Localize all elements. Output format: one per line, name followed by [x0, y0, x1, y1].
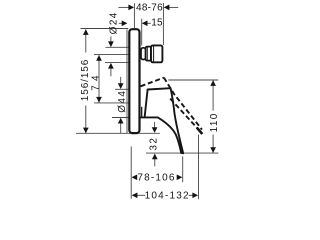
dim 32 top tail [154, 122, 156, 128]
knob ring [146, 47, 151, 61]
plate bottom extension line [76, 132, 160, 134]
handle axis reference line [94, 102, 129, 104]
svg-text:78-106: 78-106 [137, 173, 175, 184]
dim 15 extension line [141, 19, 143, 46]
svg-text:Ø44: Ø44 [117, 90, 128, 113]
bottom left extension line [130, 147, 132, 199]
knob cap [151, 45, 162, 62]
dim 110 line upper [212, 80, 214, 110]
dim 110 top arrowhead [210, 80, 216, 86]
handle top reference line [115, 88, 129, 90]
dim 156/156 line upper [85, 29, 87, 52]
dim 156/156 bottom arrowhead [83, 128, 89, 134]
pipe bottom line [105, 62, 129, 64]
lever rear bottom stub [141, 107, 143, 117]
knob ring inner line [146, 47, 148, 60]
escutcheon plate [129, 29, 139, 133]
raised handle dashed tip [197, 128, 202, 134]
dim D44 bottom arrowhead [118, 118, 124, 124]
svg-text:48-76: 48-76 [136, 3, 163, 14]
svg-text:Ø24: Ø24 [108, 11, 119, 34]
dim 104-132 right arrowhead [192, 192, 198, 198]
dim 104-132 left arrowhead [132, 192, 138, 198]
dim D44 top tail [120, 77, 122, 84]
svg-text:104-132: 104-132 [145, 191, 190, 200]
knob neck [141, 48, 146, 60]
raised handle dashed front edge [164, 78, 202, 130]
dim 74 top arrowhead [96, 55, 102, 61]
lever handle (down position) [140, 88, 183, 153]
dim 78-106 right arrowhead [177, 174, 183, 180]
handle tip bottom extension line [146, 152, 218, 154]
dim 110 line lower [212, 135, 214, 153]
dim 156/156 line lower [85, 106, 87, 134]
dim 32 bottom tail [154, 159, 156, 167]
dim 32 top arrowhead [152, 127, 158, 133]
svg-text:15: 15 [151, 18, 163, 29]
dim 15 left arrowhead [122, 20, 128, 26]
raised handle dashed lower edge [170, 99, 200, 132]
svg-text:156/156: 156/156 [80, 59, 91, 101]
dim D24 bottom arrowhead [108, 63, 114, 69]
dim 48-76 right arrowhead [164, 5, 170, 11]
dim D24 top tail [110, 37, 112, 43]
dim 104-132 left segment [137, 194, 145, 196]
dim 48-76 left arrowhead [128, 5, 134, 11]
raised tip extension line [198, 135, 200, 200]
wall line [126, 29, 128, 133]
dim 156/156 top arrowhead [83, 29, 89, 35]
pipe axis line [94, 54, 129, 56]
handle bottom reference line [112, 117, 129, 119]
dim 74 bottom arrowhead [96, 97, 102, 103]
dim 104-132 right segment [189, 194, 193, 196]
dim 48-76 left extension line [133, 3, 135, 28]
dim 74 line [98, 55, 100, 102]
dim 48-76 right extension line [162, 3, 164, 45]
dim 78-106 left arrowhead [132, 174, 138, 180]
dim 32 bottom arrowhead [152, 154, 158, 160]
dim 15 right arrowhead [142, 20, 148, 26]
raised handle top extension line [168, 79, 218, 81]
svg-text:32: 32 [148, 137, 159, 151]
raised handle dashed back edge [141, 78, 164, 87]
dim 15 right tail [147, 22, 150, 24]
svg-text:74: 74 [90, 71, 101, 91]
dim 15 left tail [119, 22, 123, 24]
pipe top line [106, 46, 129, 48]
handle tip extension line [182, 156, 184, 182]
dim D44 top arrowhead [118, 83, 124, 89]
dim D44 bottom tail [120, 123, 122, 133]
dim 48-76 right tail [169, 6, 178, 8]
dim D24 bottom tail [110, 68, 112, 76]
dim 110 bottom arrowhead [210, 147, 216, 153]
dim D24 top arrowhead [108, 41, 114, 47]
svg-text:110: 110 [209, 112, 220, 132]
knob cap inner line [153, 46, 155, 62]
dim 48-76 left tail [118, 6, 128, 8]
plate top extension line [81, 28, 129, 30]
